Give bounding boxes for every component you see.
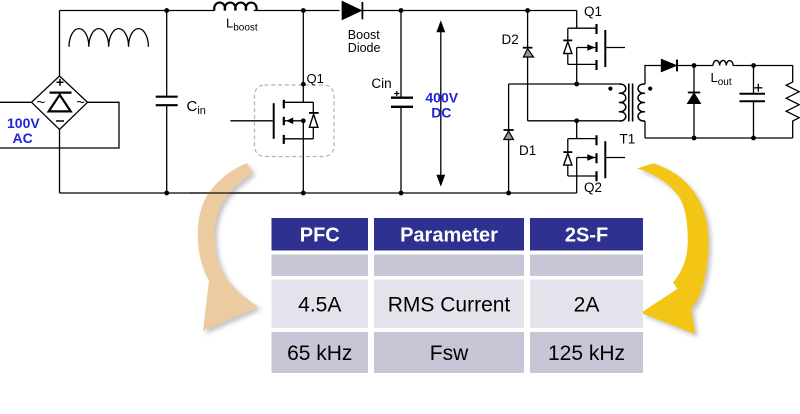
- capacitor Cin2 plus mark: [394, 91, 399, 96]
- node top rail at Q1 boost: [301, 8, 306, 13]
- table Fsw row: [272, 332, 369, 373]
- node Q1 boost body: [301, 118, 306, 123]
- mosfet Q1 HB: source wire: [576, 48, 578, 85]
- arrow tan swoosh to table: [198, 163, 258, 331]
- svg-text:Q1: Q1: [307, 71, 324, 86]
- mosfet Q1 boost: gate lead: [230, 120, 272, 122]
- mosfet Q1 HB: gate bar: [604, 30, 606, 67]
- table comparison PFC vs 2S-F: [272, 218, 644, 373]
- diode D2 triangle: [523, 49, 533, 57]
- svg-text:T1: T1: [620, 132, 636, 147]
- diode D1 lead: [508, 84, 510, 193]
- node bottom rail at Q1 boost: [301, 191, 306, 196]
- inductor Lboost: [214, 3, 256, 11]
- wire bridge top to rail: [59, 11, 61, 77]
- capacitor Cout plus mark: [754, 84, 762, 92]
- mosfet Q2 HB: arrow: [587, 154, 595, 161]
- svg-text:2A: 2A: [574, 294, 600, 317]
- svg-text:DC: DC: [431, 104, 451, 120]
- bridge diode triangle: [49, 95, 71, 112]
- arrow yellow swoosh to table: [637, 163, 709, 334]
- mosfet Q1 HB: body stub: [577, 47, 597, 49]
- boost diode D-boost: [342, 2, 361, 20]
- svg-text:RMS Current: RMS Current: [388, 294, 511, 317]
- node output cap junction bottom: [751, 136, 756, 141]
- mosfet Q1 boost: gate bar: [273, 103, 275, 139]
- svg-text:4.5A: 4.5A: [298, 294, 341, 317]
- node top rail at Cin2: [399, 8, 404, 13]
- mosfet Q1 boost: source wire: [302, 121, 304, 193]
- svg-text:~: ~: [76, 94, 85, 111]
- diode D2 bar: [523, 47, 533, 49]
- node Q1 boost drain box edge: [301, 82, 306, 87]
- diode D2 lead: [527, 11, 529, 121]
- svg-text:Q2: Q2: [584, 180, 602, 195]
- inductor Lout: [713, 60, 733, 65]
- table header row: [272, 218, 369, 251]
- mosfet Q2 HB: source stub: [568, 175, 597, 177]
- diode D1 bar: [504, 129, 514, 131]
- node bottom rail at Cin2: [399, 191, 404, 196]
- mosfet Q1 HB: source stub: [568, 63, 597, 65]
- mosfet Q1 HB: body diode bar: [563, 39, 572, 41]
- wire output bottom: [645, 137, 793, 139]
- svg-text:Parameter: Parameter: [400, 225, 498, 247]
- mosfet Q2 HB: gate lead: [606, 157, 625, 159]
- node top rail at D2: [525, 8, 530, 13]
- wire bridge bottom to rail: [59, 130, 61, 194]
- bridge rectifier BR1 diamond: [32, 76, 88, 130]
- wire AC input line 1: [0, 101, 32, 103]
- mosfet Q2 HB: body stub: [577, 157, 597, 159]
- mosfet Q1 HB: body diode lead: [567, 28, 569, 64]
- svg-text:Boost: Boost: [348, 28, 380, 42]
- wire top rail mid segment: [254, 10, 340, 12]
- capacitor Cin1: [166, 11, 168, 194]
- inductor AC-side coil: [69, 29, 148, 47]
- svg-text:PFC: PFC: [300, 225, 340, 247]
- wire secondary top lead: [645, 66, 662, 85]
- wire secondary bottom lead: [644, 121, 646, 138]
- capacitor Cout: [753, 66, 755, 139]
- svg-text:125 kHz: 125 kHz: [548, 342, 625, 365]
- bridge diode bar: [50, 91, 72, 93]
- mosfet Q1 boost: body diode lead: [312, 102, 314, 139]
- mosfet Q1 boost: drain wire: [302, 11, 304, 103]
- diode output rectifier: [662, 60, 677, 72]
- mosfet Q2 HB: drain wire: [576, 121, 578, 139]
- diode freewheel bar: [688, 92, 700, 94]
- mosfet Q1 boost: body stub: [284, 120, 304, 122]
- svg-text:65 kHz: 65 kHz: [287, 342, 352, 365]
- mosfet Q1 HB: arrow: [587, 44, 595, 51]
- node output diode junction bottom: [692, 136, 697, 141]
- table RMS row: [272, 280, 369, 329]
- mosfet Q2 HB: drain stub: [568, 138, 597, 140]
- node top rail at Cin1: [164, 8, 169, 13]
- node output diode junction top: [692, 63, 697, 68]
- mosfet Q2 HB: body diode bar: [563, 151, 572, 153]
- node bottom rail at Cin1: [164, 191, 169, 196]
- transformer secondary polarity dot: [648, 87, 652, 91]
- arrow 400V span: [440, 30, 442, 178]
- mosfet Q2 HB: body diode triangle: [564, 153, 572, 165]
- node output cap junction top: [751, 63, 756, 68]
- mosfet Q1 HB: gate lead: [606, 47, 625, 49]
- wire output top: [677, 65, 793, 67]
- resistor load: [786, 66, 799, 139]
- table empty row: [272, 255, 369, 277]
- wire primary top: [509, 83, 619, 85]
- node primary bottom: [574, 118, 579, 123]
- mosfet Q1 boost: body diode bar: [309, 112, 319, 114]
- svg-text:~: ~: [37, 94, 46, 111]
- diode freewheel lead: [693, 66, 695, 139]
- diode D1 triangle: [504, 131, 514, 140]
- svg-text:100V: 100V: [7, 115, 40, 131]
- wire top rail left segment: [60, 10, 215, 12]
- mosfet Q1 HB: body diode triangle: [564, 42, 572, 54]
- svg-text:Diode: Diode: [348, 41, 381, 55]
- wire top rail right segment: [363, 10, 577, 12]
- transformer T1 secondary coil: [638, 84, 645, 121]
- node primary top: [574, 82, 579, 87]
- capacitor Cin2: [400, 11, 402, 194]
- mosfet Q1 boost: drain stub: [284, 101, 314, 103]
- mosfet Q1 HB: channel bar: [595, 24, 597, 70]
- svg-text:D2: D2: [502, 32, 519, 47]
- bridge minus mark: [56, 120, 64, 122]
- mosfet Q1 HB: drain wire: [576, 11, 578, 29]
- mosfet Q1 boost: source stub: [284, 138, 314, 140]
- svg-text:Fsw: Fsw: [430, 342, 469, 365]
- node bottom rail at D1: [506, 191, 511, 196]
- mosfet Q1 boost: channel bar: [283, 100, 285, 144]
- wire primary bottom: [528, 120, 619, 122]
- mosfet Q2 HB: body diode lead: [567, 139, 569, 176]
- bridge plus mark: [57, 79, 64, 86]
- diode freewheel triangle: [688, 93, 700, 103]
- mosfet Q2 HB: channel bar: [595, 135, 597, 181]
- transformer primary polarity dot: [608, 87, 612, 91]
- wire bottom rail over tan arrow: [190, 192, 280, 194]
- svg-text:2S-F: 2S-F: [565, 225, 608, 247]
- svg-text:Q1: Q1: [584, 4, 602, 19]
- mosfet Q1 HB: drain stub: [568, 27, 597, 29]
- dashed box around boost mosfet: [255, 85, 335, 157]
- transformer T1 primary coil: [619, 84, 626, 121]
- svg-text:D1: D1: [519, 143, 536, 158]
- wire AC input line 2: [0, 102, 119, 148]
- mosfet Q1 boost: arrow: [286, 118, 293, 125]
- mosfet Q2 HB: source wire: [576, 158, 578, 194]
- svg-text:Cin: Cin: [371, 76, 391, 91]
- mosfet Q1 boost: body diode triangle: [309, 114, 318, 127]
- svg-text:AC: AC: [13, 130, 33, 146]
- transformer T1 core: [629, 84, 633, 122]
- mosfet Q2 HB: gate bar: [604, 141, 606, 178]
- svg-text:400V: 400V: [425, 90, 458, 106]
- wire bottom rail: [60, 192, 577, 194]
